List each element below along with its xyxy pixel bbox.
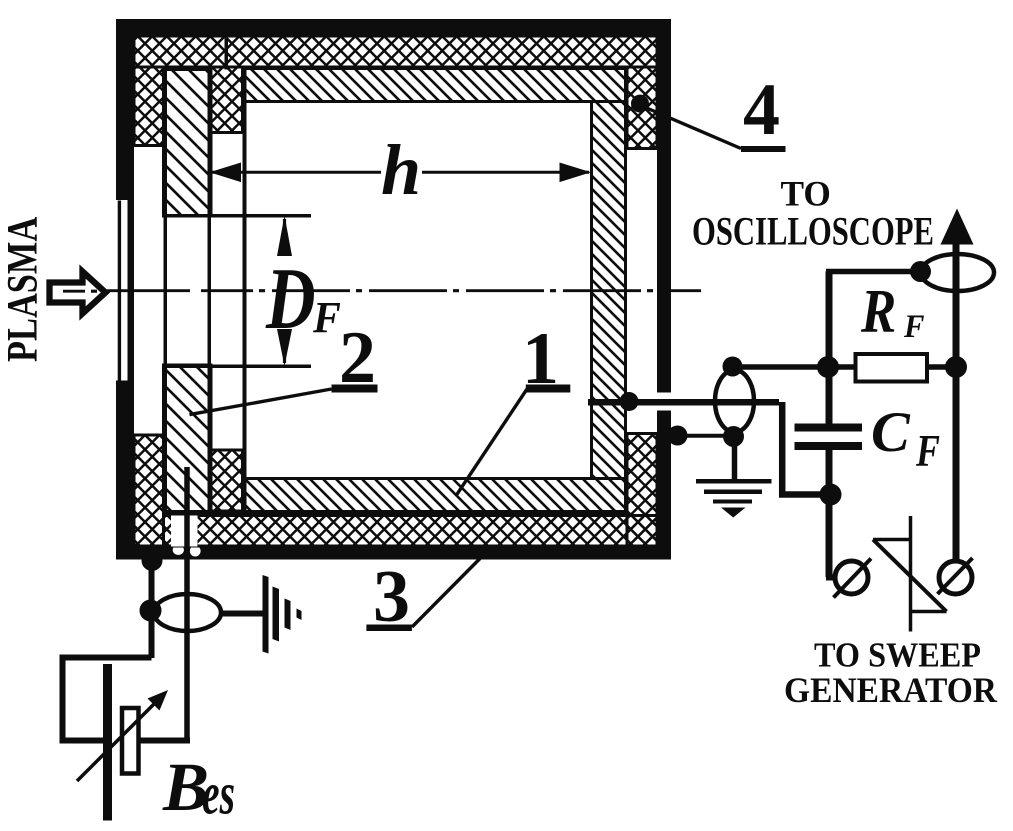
shield 4: lower-left crosshatch band [134, 435, 164, 546]
insulator block upper (crosshatch) [211, 67, 243, 133]
cup 1: left wall line [243, 66, 247, 513]
connector phi terminal left [826, 559, 871, 598]
wire: branch to oscilloscope line [826, 269, 920, 275]
label 1 with leader [456, 318, 570, 495]
insulator block lower (crosshatch) [211, 450, 243, 511]
svg-text:C: C [871, 401, 910, 463]
wire below C_F [826, 450, 833, 577]
svg-text:D: D [265, 251, 315, 348]
shield 4: upper-right crosshatch band [627, 67, 657, 149]
h dimension arrow [210, 163, 592, 183]
cup 1: bottom wall (diagonal hatch) [243, 479, 626, 512]
shield 4: lower-right crosshatch band [627, 434, 657, 547]
case-to-ground wire [668, 426, 735, 480]
junction node below C_F [820, 484, 842, 506]
svg-text:F: F [915, 425, 940, 476]
shield 4: upper-left crosshatch band [134, 67, 164, 146]
node on oscilloscope ellipse [910, 261, 931, 282]
label 2 with leader [190, 317, 378, 415]
B_es short plate [122, 708, 139, 774]
svg-text:F: F [312, 294, 341, 342]
divider stub in top shield band [225, 36, 229, 70]
svg-text:OSCILLOSCOPE: OSCILLOSCOPE [692, 209, 934, 254]
wire short plate to wire B [139, 738, 191, 744]
wire A detour to B_es long plate [63, 658, 152, 741]
shield 4: bottom crosshatch band [164, 516, 658, 547]
case wire A (shield to B_es) [140, 550, 163, 658]
junction node at R_F right [945, 356, 967, 378]
feedthrough insulator (bottom) [154, 594, 221, 631]
label 3 with leader [366, 556, 480, 638]
wire: feedthrough to R_F node [733, 364, 953, 370]
svg-text:GENERATOR: GENERATOR [784, 671, 997, 710]
feedthrough insulator (oscilloscope) [921, 254, 994, 291]
feedthrough insulator (right) [715, 357, 754, 448]
svg-text:TO SWEEP: TO SWEEP [814, 636, 981, 675]
electrode 2: lower part of front cover (diagonal hatch) [164, 365, 212, 512]
D_F dimension arrow [277, 216, 292, 367]
shield 4: top crosshatch band [134, 36, 657, 67]
label 4 with leader and dot [631, 69, 786, 152]
chassis ground symbol [263, 575, 302, 654]
PLASMA inlet hollow arrow [50, 272, 106, 314]
bottom closure line of cup / electrode 2 [164, 512, 626, 516]
D_F bore reference line upper [164, 214, 311, 218]
sawtooth sweep symbol [873, 516, 947, 632]
wire to chassis ground [221, 611, 263, 617]
electrode wire B (electrode 2 to B_es) [184, 467, 190, 743]
connector notch in right wall [656, 393, 673, 411]
wire slot in bottom of case [171, 516, 198, 548]
svg-text:h: h [381, 130, 421, 210]
outer case frame (element 3 body) [115, 19, 672, 560]
dash-dot beam axis [63, 289, 701, 292]
TO OSCILLOSCOPE label [692, 173, 934, 254]
junction node at R_F left [817, 356, 839, 378]
cup 1: right wall (diagonal hatch) [592, 102, 626, 479]
electrode 2 bore edge lines [164, 70, 212, 512]
svg-text:R: R [860, 276, 896, 346]
collector output wire through notch [588, 392, 831, 495]
resistor R_F [856, 276, 928, 382]
electrode 2: upper part of front cover (diagonal hatch) [164, 70, 212, 217]
svg-text:4: 4 [743, 69, 780, 151]
vertical wire at R_F/C_F branch [826, 272, 833, 424]
connector phi terminal right [938, 558, 973, 594]
aperture slot in left wall [115, 200, 128, 381]
B_es label [162, 749, 235, 826]
earth ground symbol [696, 479, 772, 518]
node on cup wall [620, 392, 639, 411]
B_es long plate [103, 664, 112, 821]
D_F bore reference line lower [164, 365, 311, 369]
svg-text:TO: TO [781, 173, 831, 213]
oscilloscope output line with arrow [941, 209, 974, 561]
TO SWEEP GENERATOR label [784, 636, 997, 710]
svg-text:PLASMA: PLASMA [0, 217, 46, 362]
cup 1: top wall (diagonal hatch) [243, 69, 626, 102]
svg-text:es: es [202, 760, 235, 826]
variable arrow through B_es [77, 690, 168, 781]
svg-text:F: F [903, 308, 924, 344]
capacitor C_F [795, 401, 940, 476]
